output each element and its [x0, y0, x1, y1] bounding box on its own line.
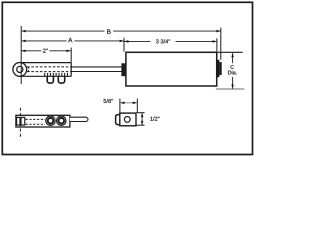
dimension line A [21, 40, 124, 43]
hidden terminal leg dashes [45, 73, 68, 76]
hidden bore end dash [28, 66, 30, 72]
end button step 2 [219, 62, 221, 75]
eye ring outer [13, 63, 27, 77]
C dia dimension line with arrows [231, 53, 234, 89]
extension line plunger tip [220, 28, 222, 60]
terminal loop 1 [47, 76, 53, 83]
label A [68, 38, 72, 42]
label B [107, 29, 110, 33]
cylinder case [126, 52, 217, 86]
label 3 3/4" [156, 39, 170, 43]
rod collar [121, 63, 125, 76]
terminal eyelet 1 [46, 116, 55, 125]
label 5/8" [104, 99, 113, 103]
1/2 extension tick top [137, 112, 145, 114]
eye ring hole [17, 66, 23, 72]
terminal eyelet 2 [57, 116, 66, 125]
bottom view hidden dashes [26, 119, 45, 124]
label 2" [43, 49, 48, 53]
5/8 extension line left [119, 99, 121, 113]
extension line body end [70, 48, 72, 63]
bottom view body [16, 115, 70, 127]
C dia top extension line [217, 51, 243, 53]
eye centerline vertical [20, 62, 22, 76]
C dia bottom extension line [216, 88, 244, 90]
extension line cylinder left [123, 38, 125, 52]
terminal loop 2 [58, 76, 64, 83]
extension line left (eye center) [20, 26, 22, 84]
end view button cap [116, 115, 120, 125]
eye section square right [21, 117, 25, 125]
dimension line 2" [21, 50, 71, 53]
eye section square left [17, 117, 20, 125]
dimension line 3 3/4 [124, 40, 217, 43]
bottom view rod stub [70, 117, 88, 121]
end view hole [124, 117, 130, 123]
extension line cylinder right [216, 38, 218, 52]
bottom view centerline [19, 108, 21, 138]
1/2 extension tick bottom [137, 124, 145, 126]
5/8 dimension line [120, 102, 137, 105]
5/8 extension line right [136, 99, 138, 113]
label 1/2" [150, 117, 159, 121]
dimension line B [21, 30, 221, 33]
label C [231, 65, 234, 69]
label Dia. [228, 70, 237, 74]
plunger rod [71, 67, 121, 72]
1/2 dimension line with arrows [141, 113, 144, 125]
hidden bore dashed lines [27, 67, 71, 72]
body tube outline [20, 63, 71, 77]
end button step 1 [217, 60, 220, 77]
end view plate [120, 113, 136, 126]
